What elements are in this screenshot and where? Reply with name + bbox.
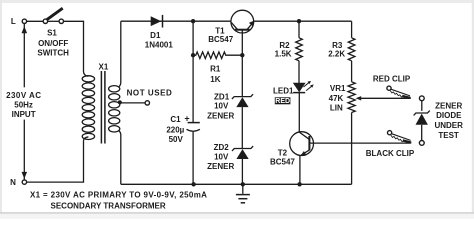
diode D1: [151, 16, 162, 26]
svg-text:R1: R1: [210, 65, 221, 74]
svg-text:+: +: [184, 114, 189, 124]
transformer secondary winding: [109, 86, 120, 132]
wire T2 emitter down to ground rail: [299, 155, 301, 184]
svg-text:50Hz: 50Hz: [14, 101, 33, 110]
svg-text:ZD1: ZD1: [214, 92, 230, 101]
input arrow up: [22, 26, 28, 33]
zener diode under test: [421, 101, 423, 111]
junction rail / R1-C1 branch: [191, 19, 195, 23]
svg-text:ZENER: ZENER: [207, 111, 234, 120]
svg-text:L: L: [11, 17, 16, 26]
svg-text:10V: 10V: [214, 101, 229, 110]
svg-text:ZENER: ZENER: [435, 102, 462, 111]
svg-text:T2: T2: [278, 148, 288, 157]
wire secondary top to rail: [118, 21, 121, 87]
junction R1 left: [191, 53, 195, 57]
svg-text:INPUT: INPUT: [12, 110, 36, 119]
wire input upper segment: [23, 24, 25, 88]
resistor R3: [348, 38, 355, 61]
svg-text:ZENER: ZENER: [207, 162, 234, 171]
junction ZD2 / ground rail: [241, 182, 245, 186]
transformer core: [100, 71, 102, 144]
junction center tap: [118, 100, 122, 104]
svg-text:BC547: BC547: [208, 35, 233, 44]
svg-text:SWITCH: SWITCH: [37, 49, 69, 58]
wire T1 base down to zeners: [241, 30, 243, 97]
zener ZD2: [232, 146, 253, 151]
svg-text:LIN: LIN: [330, 104, 343, 113]
svg-text:1.5K: 1.5K: [275, 50, 292, 59]
svg-text:230V AC: 230V AC: [6, 91, 41, 100]
svg-text:T1: T1: [215, 26, 225, 35]
border frame left: [0, 0, 2, 219]
svg-text:R2: R2: [279, 41, 290, 50]
node L terminal: [22, 19, 26, 23]
node N terminal: [22, 180, 26, 184]
resistor R2: [296, 38, 303, 61]
wire T2 collector to black clip / DUT: [310, 142, 411, 144]
svg-text:DIODE: DIODE: [436, 111, 462, 120]
svg-text:ZD2: ZD2: [214, 143, 230, 152]
top rail wire: [121, 20, 231, 22]
svg-text:TEST: TEST: [438, 131, 459, 140]
svg-text:C1: C1: [170, 115, 181, 124]
svg-text:NOT USED: NOT USED: [127, 88, 173, 97]
switch S1: [43, 19, 47, 23]
wire switch to transformer primary top: [64, 21, 89, 76]
border frame top: [0, 0, 474, 3]
wire input lower segment: [23, 120, 25, 180]
wire R3 bottom to VR1 top: [351, 61, 353, 82]
svg-text:220µ: 220µ: [166, 126, 184, 135]
svg-text:RED: RED: [275, 98, 290, 105]
potentiometer VR1: [348, 82, 355, 113]
wire center tap to NOT USED terminal: [120, 102, 145, 104]
border frame bottom: [0, 212, 474, 214]
svg-text:2.2K: 2.2K: [328, 50, 345, 59]
wire N to transformer primary bottom: [27, 137, 89, 182]
ground rail wire: [121, 183, 352, 185]
wire VR1 bottom to ground rail: [351, 113, 353, 185]
zener diode under test terminal bottom: [419, 141, 424, 146]
LED1 RED tag: [275, 97, 291, 104]
svg-text:S1: S1: [47, 28, 57, 37]
svg-text:X1: X1: [99, 63, 109, 72]
top rail right of T1: [254, 20, 352, 22]
junction T2 emitter / ground rail: [297, 182, 301, 186]
transistor T1: [231, 10, 254, 33]
wire ZD1 to ZD2: [241, 107, 243, 148]
wire rail corner down to R3: [351, 21, 353, 38]
svg-text:47K: 47K: [329, 94, 344, 103]
ground symbol: [242, 184, 244, 194]
svg-text:D1: D1: [150, 31, 161, 40]
VR1 wiper wire to red clip: [358, 97, 411, 99]
LED LED1: [293, 83, 306, 92]
svg-text:1N4001: 1N4001: [145, 41, 174, 50]
svg-text:ON/OFF: ON/OFF: [38, 39, 68, 48]
svg-text:10V: 10V: [214, 152, 229, 161]
svg-text:N: N: [10, 178, 16, 187]
zener ZD1: [232, 94, 253, 99]
svg-text:VR1: VR1: [330, 84, 346, 93]
transistor T2: [290, 132, 314, 156]
svg-text:BC547: BC547: [270, 158, 295, 167]
transformer primary winding: [82, 76, 94, 140]
wire R2 top lead: [298, 21, 300, 38]
svg-text:LED1: LED1: [273, 87, 294, 96]
svg-text:BLACK CLIP: BLACK CLIP: [366, 149, 415, 158]
wire ZD2 to ground rail: [241, 159, 243, 184]
zener diode under test terminal top: [419, 96, 424, 101]
svg-text:SECONDARY TRANSFORMER: SECONDARY TRANSFORMER: [51, 202, 166, 211]
border frame right: [472, 0, 474, 219]
svg-text:RED CLIP: RED CLIP: [373, 75, 411, 84]
wire LED1 cathode to T2 base: [298, 93, 300, 133]
resistor R1: [193, 52, 242, 59]
junction R1 right / T1 base line: [240, 53, 244, 57]
input arrow down: [22, 172, 28, 179]
wire R2 bottom to LED1: [298, 61, 300, 83]
wire L to switch: [27, 20, 43, 22]
svg-text:1K: 1K: [210, 75, 220, 84]
capacitor C1: [188, 122, 200, 124]
svg-text:X1 = 230V AC PRIMARY TO 9V-0-9: X1 = 230V AC PRIMARY TO 9V-0-9V, 250mA: [30, 191, 207, 200]
NOT USED terminal: [145, 101, 149, 105]
svg-text:50V: 50V: [169, 135, 184, 144]
junction C1 / ground rail: [191, 182, 195, 186]
svg-text:UNDER: UNDER: [434, 121, 463, 130]
svg-text:R3: R3: [332, 41, 343, 50]
junction rail / R2 branch: [297, 19, 301, 23]
wire branch down to C1: [192, 21, 194, 122]
wire secondary bottom to ground rail: [118, 130, 121, 184]
